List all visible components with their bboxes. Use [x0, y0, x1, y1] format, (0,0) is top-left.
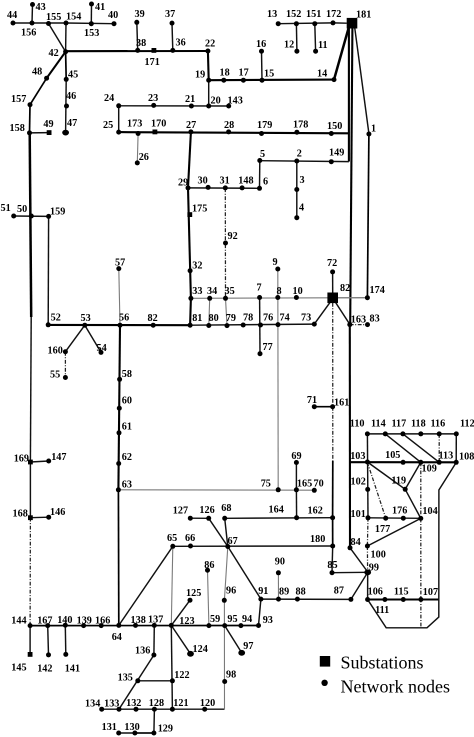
svg-text:51: 51: [1, 203, 11, 214]
svg-text:34: 34: [207, 286, 217, 297]
svg-text:47: 47: [67, 118, 77, 129]
svg-text:23: 23: [148, 93, 158, 104]
svg-text:150: 150: [327, 121, 342, 132]
svg-text:21: 21: [185, 94, 195, 105]
svg-text:98: 98: [226, 670, 236, 681]
svg-text:67: 67: [228, 536, 238, 547]
svg-text:122: 122: [174, 670, 189, 681]
svg-text:83: 83: [370, 314, 380, 325]
svg-text:26: 26: [139, 152, 149, 163]
svg-text:55: 55: [50, 370, 60, 381]
svg-text:179: 179: [257, 120, 272, 131]
svg-text:132: 132: [126, 698, 141, 709]
svg-text:164: 164: [269, 505, 284, 516]
svg-text:70: 70: [314, 479, 324, 490]
svg-text:157: 157: [11, 94, 26, 105]
svg-text:31: 31: [220, 176, 230, 187]
svg-text:124: 124: [193, 644, 208, 655]
svg-text:175: 175: [192, 204, 207, 215]
svg-text:Substations: Substations: [341, 653, 424, 673]
svg-text:80: 80: [209, 313, 219, 324]
svg-text:91: 91: [258, 586, 268, 597]
svg-text:58: 58: [122, 369, 132, 380]
svg-text:99: 99: [369, 563, 379, 574]
svg-text:69: 69: [291, 451, 301, 462]
svg-text:45: 45: [68, 70, 78, 81]
svg-text:16: 16: [256, 39, 266, 50]
svg-text:37: 37: [165, 9, 175, 20]
svg-text:114: 114: [371, 419, 386, 430]
svg-text:46: 46: [66, 91, 76, 102]
svg-text:14: 14: [317, 69, 327, 80]
svg-text:173: 173: [127, 119, 142, 130]
svg-text:13: 13: [267, 9, 277, 20]
svg-text:43: 43: [36, 2, 46, 13]
svg-text:125: 125: [186, 588, 201, 599]
svg-text:93: 93: [263, 615, 273, 626]
svg-text:154: 154: [66, 12, 81, 23]
svg-text:143: 143: [228, 96, 243, 107]
svg-text:65: 65: [167, 533, 177, 544]
svg-text:142: 142: [37, 664, 52, 675]
svg-text:24: 24: [104, 93, 114, 104]
svg-text:79: 79: [226, 313, 236, 324]
svg-text:82: 82: [148, 313, 158, 324]
svg-text:116: 116: [431, 419, 446, 430]
svg-text:178: 178: [293, 120, 308, 131]
svg-text:160: 160: [48, 346, 63, 357]
svg-text:78: 78: [243, 313, 253, 324]
svg-text:138: 138: [131, 615, 146, 626]
svg-text:41: 41: [95, 2, 105, 13]
svg-text:149: 149: [329, 148, 344, 159]
svg-text:161: 161: [334, 398, 349, 409]
svg-text:180: 180: [310, 534, 325, 545]
svg-text:106: 106: [368, 587, 383, 598]
svg-text:147: 147: [51, 452, 66, 463]
svg-text:136: 136: [135, 646, 150, 657]
svg-text:2: 2: [297, 149, 302, 160]
svg-text:6: 6: [263, 177, 268, 188]
svg-text:53: 53: [81, 313, 91, 324]
svg-text:62: 62: [122, 452, 132, 463]
svg-text:4: 4: [299, 202, 304, 213]
svg-text:92: 92: [228, 231, 238, 242]
svg-text:181: 181: [356, 10, 371, 21]
svg-text:35: 35: [225, 286, 235, 297]
svg-text:176: 176: [392, 506, 407, 517]
svg-text:129: 129: [158, 724, 173, 735]
svg-text:140: 140: [57, 615, 72, 626]
svg-text:27: 27: [186, 120, 196, 131]
svg-text:139: 139: [77, 616, 92, 627]
svg-text:11: 11: [318, 40, 328, 51]
svg-text:119: 119: [391, 476, 406, 487]
svg-text:127: 127: [173, 506, 188, 517]
svg-text:36: 36: [176, 38, 186, 49]
svg-text:25: 25: [103, 120, 113, 131]
svg-text:60: 60: [122, 396, 132, 407]
svg-text:151: 151: [306, 9, 321, 20]
svg-text:15: 15: [264, 69, 274, 80]
svg-text:63: 63: [122, 480, 132, 491]
svg-text:103: 103: [350, 451, 365, 462]
svg-text:85: 85: [327, 560, 337, 571]
svg-text:133: 133: [104, 699, 119, 710]
svg-text:126: 126: [199, 505, 214, 516]
svg-text:68: 68: [221, 503, 231, 514]
svg-text:77: 77: [263, 342, 273, 353]
svg-text:42: 42: [49, 48, 59, 59]
svg-text:101: 101: [351, 509, 366, 520]
svg-text:28: 28: [224, 120, 234, 131]
svg-text:112: 112: [460, 419, 474, 430]
svg-text:167: 167: [37, 616, 52, 627]
svg-text:117: 117: [392, 419, 407, 430]
svg-text:57: 57: [115, 258, 125, 269]
svg-text:7: 7: [257, 283, 262, 294]
svg-text:170: 170: [151, 119, 166, 130]
svg-text:1: 1: [371, 124, 376, 135]
svg-text:54: 54: [97, 343, 107, 354]
svg-text:166: 166: [95, 616, 110, 627]
svg-text:105: 105: [385, 450, 400, 461]
svg-text:102: 102: [351, 477, 366, 488]
svg-text:20: 20: [211, 96, 221, 107]
svg-text:Network nodes: Network nodes: [341, 677, 450, 697]
svg-text:40: 40: [108, 10, 118, 21]
svg-text:144: 144: [11, 616, 26, 627]
svg-text:120: 120: [200, 698, 215, 709]
svg-text:56: 56: [119, 313, 129, 324]
svg-text:156: 156: [21, 28, 36, 39]
svg-text:97: 97: [243, 641, 253, 652]
svg-text:118: 118: [411, 419, 426, 430]
svg-text:163: 163: [351, 315, 366, 326]
svg-text:48: 48: [32, 67, 42, 78]
svg-text:109: 109: [422, 464, 437, 475]
svg-text:152: 152: [286, 9, 301, 20]
svg-text:100: 100: [371, 550, 386, 561]
svg-text:104: 104: [422, 506, 437, 517]
svg-text:115: 115: [394, 587, 409, 598]
svg-text:141: 141: [65, 664, 80, 675]
svg-text:168: 168: [13, 508, 28, 519]
svg-text:3: 3: [300, 175, 305, 186]
svg-text:64: 64: [112, 632, 122, 643]
svg-text:18: 18: [220, 68, 230, 79]
svg-text:29: 29: [178, 178, 188, 189]
svg-text:82: 82: [340, 283, 350, 294]
svg-text:66: 66: [185, 533, 195, 544]
svg-text:39: 39: [135, 9, 145, 20]
svg-text:146: 146: [50, 507, 65, 518]
svg-text:121: 121: [173, 698, 188, 709]
svg-text:94: 94: [242, 614, 252, 625]
svg-text:71: 71: [307, 395, 317, 406]
svg-text:89: 89: [279, 587, 289, 598]
svg-text:134: 134: [85, 699, 100, 710]
svg-text:90: 90: [275, 557, 285, 568]
svg-text:49: 49: [43, 119, 53, 130]
svg-text:113: 113: [439, 451, 454, 462]
svg-text:19: 19: [195, 70, 205, 81]
svg-text:38: 38: [136, 38, 146, 49]
svg-text:111: 111: [375, 605, 389, 616]
svg-text:137: 137: [148, 615, 163, 626]
svg-text:17: 17: [239, 68, 249, 79]
svg-text:162: 162: [308, 506, 323, 517]
svg-text:22: 22: [205, 39, 215, 50]
svg-text:148: 148: [238, 176, 253, 187]
svg-text:159: 159: [50, 206, 65, 217]
svg-text:81: 81: [192, 313, 202, 324]
svg-text:123: 123: [179, 616, 194, 627]
svg-text:76: 76: [263, 313, 273, 324]
svg-text:44: 44: [7, 10, 17, 21]
svg-text:108: 108: [459, 452, 474, 463]
svg-text:171: 171: [145, 57, 160, 68]
svg-text:73: 73: [301, 313, 311, 324]
svg-text:158: 158: [10, 123, 25, 134]
svg-text:9: 9: [273, 257, 278, 268]
svg-text:72: 72: [327, 258, 337, 269]
svg-text:52: 52: [51, 312, 61, 323]
svg-text:8: 8: [277, 286, 282, 297]
svg-text:169: 169: [14, 454, 29, 465]
svg-text:33: 33: [192, 286, 202, 297]
svg-text:61: 61: [122, 422, 132, 433]
svg-text:135: 135: [118, 672, 133, 683]
svg-text:155: 155: [46, 12, 61, 23]
svg-text:10: 10: [293, 286, 303, 297]
svg-text:88: 88: [296, 587, 306, 598]
svg-text:5: 5: [260, 149, 265, 160]
svg-text:130: 130: [124, 722, 139, 733]
svg-text:153: 153: [84, 28, 99, 39]
svg-text:86: 86: [204, 560, 214, 571]
svg-text:84: 84: [351, 537, 361, 548]
svg-text:107: 107: [423, 587, 438, 598]
svg-text:177: 177: [375, 524, 390, 535]
svg-text:172: 172: [326, 9, 341, 20]
svg-text:30: 30: [198, 176, 208, 187]
svg-text:95: 95: [227, 614, 237, 625]
svg-text:75: 75: [261, 479, 271, 490]
svg-text:87: 87: [334, 586, 344, 597]
svg-text:174: 174: [370, 285, 385, 296]
svg-text:59: 59: [210, 614, 220, 625]
svg-text:165: 165: [297, 479, 312, 490]
svg-text:145: 145: [11, 663, 26, 674]
svg-text:96: 96: [226, 586, 236, 597]
svg-text:50: 50: [17, 204, 27, 215]
svg-text:128: 128: [149, 698, 164, 709]
svg-text:32: 32: [192, 261, 202, 272]
svg-text:131: 131: [102, 722, 117, 733]
svg-text:110: 110: [350, 419, 365, 430]
svg-text:74: 74: [280, 313, 290, 324]
svg-text:12: 12: [284, 40, 294, 51]
